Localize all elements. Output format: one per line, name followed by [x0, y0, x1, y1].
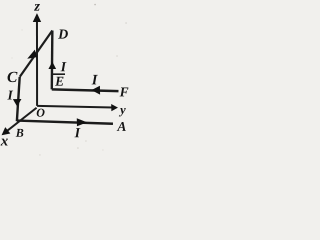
wire segment D-E [51, 30, 54, 89]
svg-text:C: C [7, 69, 18, 86]
svg-text:E: E [54, 74, 64, 89]
svg-text:A: A [116, 119, 126, 134]
svg-text:O: O [36, 106, 45, 120]
x axis [2, 108, 37, 136]
current arrow on C-B [13, 99, 22, 106]
z axis [33, 13, 41, 106]
faint scan speckles [94, 4, 96, 6]
wire segment E-F [52, 89, 119, 91]
svg-text:y: y [118, 103, 126, 117]
wire segment C-B [17, 77, 20, 121]
wire segment B-A [17, 121, 113, 124]
y axis [37, 104, 118, 111]
svg-text:I: I [74, 126, 81, 141]
current arrow on C-D [27, 50, 37, 59]
current arrow on B-A [77, 118, 87, 126]
svg-text:x: x [0, 133, 9, 149]
svg-text:z: z [33, 0, 40, 15]
current arrow on E-F [91, 86, 100, 95]
background paper [0, 0, 135, 168]
svg-text:B: B [15, 126, 24, 140]
svg-text:I: I [7, 88, 14, 103]
svg-text:F: F [119, 84, 129, 99]
svg-text:D: D [57, 28, 68, 43]
wire segment C-D (diagonal) [20, 30, 53, 76]
serif bar under I near E [53, 73, 65, 75]
current arrow on D-E [48, 62, 56, 69]
